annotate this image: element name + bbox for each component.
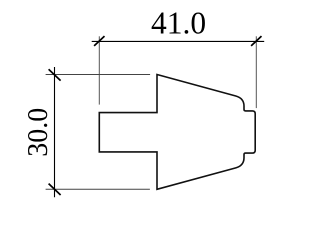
extension line top of 30.0 bbox=[46, 74, 151, 76]
tick right 41.0 bbox=[251, 36, 261, 46]
dimension line 41.0 bbox=[92, 40, 265, 42]
extension line left of 41.0 bbox=[98, 36, 100, 104]
tick top 30.0 bbox=[49, 69, 61, 80]
svg-text:41.0: 41.0 bbox=[151, 6, 206, 41]
extension line right of 41.0 bbox=[255, 36, 257, 108]
dimension line 30.0 bbox=[54, 67, 56, 197]
tick bottom 30.0 bbox=[49, 184, 61, 195]
extension line bottom of 30.0 bbox=[46, 188, 150, 190]
svg-text:30.0: 30.0 bbox=[23, 108, 54, 157]
tick left 41.0 bbox=[94, 36, 104, 46]
part outline bbox=[99, 75, 255, 190]
